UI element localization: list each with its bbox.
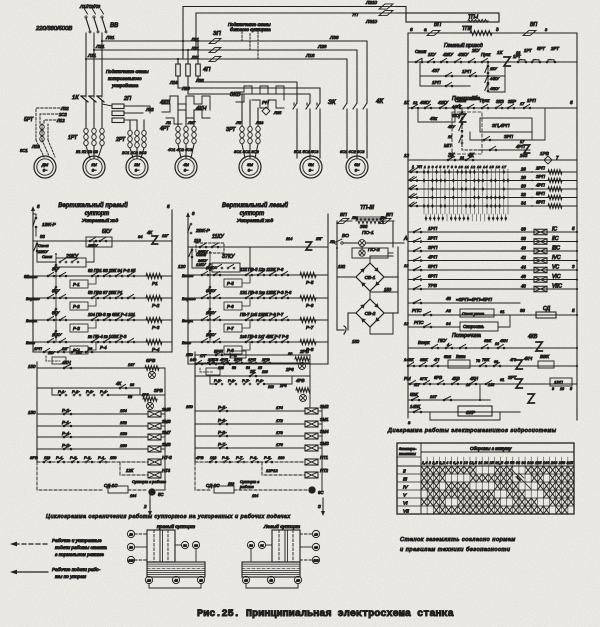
wire bridge rails bbox=[388, 252, 393, 254]
svg-text:116: 116 bbox=[262, 370, 268, 374]
svg-text:4ЗКУ: 4ЗКУ bbox=[458, 52, 469, 57]
svg-text:118: 118 bbox=[268, 385, 274, 389]
svg-text:6ВК: 6ВК bbox=[484, 338, 492, 343]
svg-text:1РТ: 1РТ bbox=[524, 48, 532, 53]
rung 4КН 6РВ bbox=[37, 367, 165, 369]
svg-text:Суппорт в работе: Суппорт в работе bbox=[132, 480, 166, 484]
wires fuses to ТП-I bbox=[396, 6, 406, 8]
svg-text:копировального: копировального bbox=[108, 76, 142, 81]
svg-text:VIС: VIС bbox=[552, 274, 561, 280]
svg-text:ЗМ8: ЗМ8 bbox=[162, 442, 171, 447]
svg-text:Ускоренный ход: Ускоренный ход bbox=[82, 217, 119, 224]
svg-text:174: 174 bbox=[276, 405, 283, 410]
svg-text:4З7: 4З7 bbox=[432, 68, 440, 73]
svg-text:суппорт: суппорт bbox=[240, 211, 264, 217]
svg-text:1РТ: 1РТ bbox=[68, 135, 78, 141]
left rail lower right column bbox=[407, 160, 409, 418]
svg-text:1З7: 1З7 bbox=[430, 395, 437, 399]
svg-text:2Р6: 2Р6 bbox=[285, 367, 294, 372]
svg-text:и правилам техники безопасно: и правилам техники безопасности bbox=[400, 547, 511, 553]
left support right rail bbox=[327, 214, 329, 364]
svg-text:СВ-2: СВ-2 bbox=[365, 311, 376, 316]
lamp ПО-1 wire to А bbox=[344, 242, 358, 244]
svg-text:Влево: Влево bbox=[182, 273, 194, 278]
rung ЗМ4 bbox=[195, 435, 305, 437]
svg-text:150: 150 bbox=[28, 410, 36, 415]
svg-text:1РП: 1РП bbox=[527, 98, 536, 103]
svg-text:ЗМ2: ЗМ2 bbox=[320, 404, 329, 409]
svg-text:З2: З2 bbox=[194, 543, 198, 547]
svg-text:3~: 3~ bbox=[248, 168, 253, 173]
svg-text:122 ПВ-5 12з 11ВК Р-6: 122 ПВ-5 12з 11ВК Р-6 bbox=[240, 267, 284, 272]
svg-text:СВ-1: СВ-1 bbox=[365, 275, 376, 280]
svg-text:Л31: Л31 bbox=[105, 35, 115, 40]
svg-text:К1 К2 К3 К3: К1 К2 К3 К3 bbox=[76, 149, 99, 154]
svg-text:2РП: 2РП bbox=[535, 166, 545, 171]
svg-text:IVС: IVС bbox=[552, 255, 561, 261]
rung ЗК 2РВ bbox=[195, 375, 310, 377]
svg-text:4КУ: 4КУ bbox=[470, 97, 477, 101]
svg-text:Вниз: Вниз bbox=[456, 354, 466, 359]
svg-text:ЗС1 ЗС2 ЗС3: ЗС1 ЗС2 ЗС3 bbox=[234, 149, 260, 154]
svg-text:4КВ: 4КВ bbox=[160, 100, 170, 106]
svg-text:ЗКЗ: ЗКЗ bbox=[496, 99, 504, 104]
svg-text:92 ПВ1 9З 2ВК 94 Р-2 95: 92 ПВ1 9З 2ВК 94 Р-2 95 bbox=[88, 268, 136, 273]
svg-text:ЗМ5: ЗМ5 bbox=[162, 407, 171, 412]
svg-text:1В: 1В bbox=[129, 532, 133, 536]
svg-text:12Г: 12Г bbox=[162, 234, 169, 238]
svg-text:III: III bbox=[403, 476, 408, 482]
svg-text:10В: 10В bbox=[128, 558, 133, 562]
svg-text:1З7: 1З7 bbox=[128, 363, 135, 367]
svg-text:2С1 2С2 2С3: 2С1 2С2 2С3 bbox=[121, 150, 147, 155]
svg-text:5ВК: 5ВК bbox=[410, 392, 418, 397]
transformer feed wire Л210 bbox=[183, 7, 382, 60]
motor 1М bbox=[83, 156, 105, 178]
svg-text:УП: УП bbox=[417, 165, 422, 169]
svg-text:Циклограмма ограничения ра: Циклограмма ограничения работы суппортов… bbox=[46, 514, 291, 520]
svg-text:З7КУ: З7КУ bbox=[222, 254, 235, 260]
rung electromagnet IIIС bbox=[408, 250, 577, 252]
left contact chain left support bbox=[191, 247, 193, 268]
svg-text:2РП: 2РП bbox=[427, 236, 438, 241]
contactor coil 1К bbox=[504, 57, 510, 66]
svg-text:ЗП: ЗП bbox=[213, 31, 222, 37]
svg-text:Р-5: Р-5 bbox=[306, 280, 314, 285]
svg-text:4В: 4В bbox=[269, 578, 273, 582]
rung Р1-Р4 series bbox=[52, 388, 60, 395]
aux contact box Р-7 left support bbox=[224, 324, 242, 332]
svg-text:Л32: Л32 bbox=[145, 107, 154, 112]
svg-text:ЗРП: ЗРП bbox=[536, 174, 546, 179]
svg-text:6: 6 bbox=[410, 27, 413, 32]
svg-text:2КУ: 2КУ bbox=[489, 67, 497, 71]
speed matrix rows bbox=[408, 171, 577, 173]
svg-text:119: 119 bbox=[194, 238, 201, 243]
svg-text:Р1: Р1 bbox=[152, 281, 158, 286]
svg-text:4К: 4К bbox=[147, 230, 152, 235]
svg-text:НТ1: НТ1 bbox=[320, 455, 328, 460]
svg-text:1М: 1М bbox=[91, 162, 97, 167]
svg-text:Р-2: Р-2 bbox=[152, 303, 160, 308]
rung: main drive start/stop bbox=[408, 61, 577, 63]
svg-text:9В: 9В bbox=[129, 545, 133, 549]
speed matrix crossing dots bbox=[423, 170, 426, 175]
rung right support Р-4 bbox=[33, 341, 172, 343]
svg-text:Р-7: Р-7 bbox=[227, 326, 234, 331]
svg-text:6С1 6С2 6С3: 6С1 6С2 6С3 bbox=[340, 149, 365, 154]
incoming supply terminals Л1 Л2 Л3 bbox=[85, 16, 87, 18]
svg-text:6РП: 6РП bbox=[536, 200, 545, 205]
rung: speed selector feed ЗК 4К bbox=[408, 159, 577, 161]
rectifier right rail bbox=[392, 221, 394, 247]
svg-text:1ВК-Р: 1ВК-Р bbox=[42, 222, 57, 228]
svg-text:120: 120 bbox=[178, 264, 186, 269]
left support left rail bbox=[187, 216, 189, 220]
svg-text:61: 61 bbox=[500, 378, 504, 382]
svg-text:164: 164 bbox=[130, 494, 136, 498]
svg-text:ЗМ6: ЗМ6 bbox=[162, 419, 171, 424]
svg-text:176: 176 bbox=[276, 442, 283, 447]
svg-text:в нормальном режиме: в нормальном режиме bbox=[55, 552, 104, 557]
svg-text:Рис.25. Принципиальная электро: Рис.25. Принципиальная электросхема стан… bbox=[197, 609, 454, 620]
svg-text:4РТ: 4РТ bbox=[160, 126, 170, 132]
svg-text:4КЧ: 4КЧ bbox=[524, 356, 533, 361]
rung crossrail up 4КВ bbox=[408, 347, 577, 349]
svg-text:25КУ: 25КУ bbox=[87, 243, 98, 248]
svg-text:подачи работы станка: подачи работы станка bbox=[55, 545, 107, 550]
svg-text:150: 150 bbox=[352, 339, 360, 344]
svg-text:Электро-: Электро- bbox=[399, 447, 417, 451]
svg-text:ЗГК: ЗГК bbox=[420, 376, 428, 381]
svg-text:14ВК: 14ВК bbox=[410, 404, 421, 409]
svg-text:4РВ: 4РВ bbox=[196, 455, 204, 460]
svg-text:Л210: Л210 bbox=[365, 0, 377, 5]
rung 14ВК ЗКР bbox=[408, 411, 520, 413]
svg-text:Р-6: Р-6 bbox=[306, 303, 314, 308]
svg-text:Суппорт в: Суппорт в bbox=[240, 480, 259, 484]
svg-text:Р-6: Р-6 bbox=[227, 304, 234, 309]
svg-text:64: 64 bbox=[446, 321, 451, 326]
svg-text:4В: 4В bbox=[174, 578, 178, 582]
svg-text:1К: 1К bbox=[404, 100, 409, 105]
rung СД-2С bbox=[195, 462, 212, 490]
svg-text:5РТ: 5РТ bbox=[537, 46, 545, 51]
rung: aux 437 1РП bbox=[420, 62, 505, 76]
svg-text:VС: VС bbox=[552, 265, 559, 271]
svg-text:Вниз: Вниз bbox=[182, 340, 191, 345]
svg-text:д: д bbox=[496, 27, 499, 32]
svg-text:IIIС: IIIС bbox=[552, 246, 560, 252]
svg-text:6С: 6С bbox=[318, 490, 324, 495]
svg-text:1з6 ПВ-8 1з7 4ВК Р-7 Р-8: 1з6 ПВ-8 1з7 4ВК Р-7 Р-8 bbox=[240, 334, 289, 339]
lower right ladder left rail bbox=[36, 362, 38, 462]
aux contact box Р-6 left support bbox=[224, 302, 242, 310]
rung accelerated travel 11КУ bbox=[188, 246, 328, 248]
svg-text:ЗК: ЗК bbox=[328, 99, 336, 106]
svg-text:Рабочие подачи рабо-: Рабочие подачи рабо- bbox=[52, 567, 101, 572]
svg-text:Л1: Л1 bbox=[165, 120, 171, 125]
svg-text:Вертикальный правый: Вертикальный правый bbox=[58, 202, 128, 209]
right support left rail bbox=[32, 210, 34, 214]
svg-text:11: 11 bbox=[448, 135, 452, 139]
svg-text:154: 154 bbox=[120, 408, 127, 413]
svg-text:45КУ: 45КУ bbox=[490, 87, 499, 91]
svg-text:26: 26 bbox=[520, 167, 526, 172]
rung: 1РП coil branch bbox=[420, 76, 470, 86]
svg-text:1РП: 1РП bbox=[554, 380, 563, 385]
motor 2М bbox=[126, 156, 148, 178]
svg-text:1РП: 1РП bbox=[428, 226, 438, 231]
rung electromagnet VС bbox=[408, 269, 577, 271]
svg-text:Ускоренный ход: Ускоренный ход bbox=[237, 217, 274, 224]
svg-text:5ВБ: 5ВБ bbox=[444, 355, 452, 359]
svg-text:Л32: Л32 bbox=[60, 106, 69, 111]
fuse 7П upper bbox=[379, 4, 393, 9]
side support tap wires (dashed) bbox=[241, 32, 243, 41]
svg-text:1 2 3 4 5 6 7 8 9 10 11 12 13: 1 2 3 4 5 6 7 8 9 10 11 12 13 14 15 16 1… bbox=[424, 165, 506, 169]
svg-text:16: 16 bbox=[560, 387, 564, 391]
svg-text:4РП: 4РП bbox=[428, 255, 438, 260]
rung electromagnet IVС bbox=[408, 260, 577, 262]
rung right support Р-3 bbox=[33, 319, 172, 321]
svg-text:38: 38 bbox=[521, 236, 526, 241]
svg-text:4КВ: 4КВ bbox=[452, 376, 460, 381]
wires 4П to ЗК contactor bbox=[178, 88, 320, 101]
svg-text:А: А bbox=[403, 236, 408, 242]
svg-text:4КВ: 4КВ bbox=[528, 334, 538, 340]
svg-text:16: 16 bbox=[495, 342, 499, 346]
rung crossrail down 4КН bbox=[408, 365, 577, 367]
aux box 43К bbox=[418, 108, 455, 122]
diagonal note in table bbox=[511, 469, 531, 489]
rung 5ВК 137 bbox=[408, 399, 490, 401]
svg-text:БП: БП bbox=[340, 212, 347, 218]
svg-text:4КН: 4КН bbox=[500, 338, 508, 343]
rung 5РП bbox=[195, 354, 310, 356]
svg-text:Р-4: Р-4 bbox=[152, 347, 160, 352]
svg-text:48: 48 bbox=[446, 296, 451, 301]
svg-text:114: 114 bbox=[286, 236, 293, 241]
svg-text:2М: 2М bbox=[133, 162, 140, 167]
wires to motor 1М bbox=[86, 146, 90, 158]
svg-text:магниты: магниты bbox=[399, 452, 416, 456]
relay box 1РП right bbox=[550, 378, 572, 386]
rectifier left rail bbox=[336, 221, 338, 330]
svg-text:Влево: Влево bbox=[26, 274, 38, 279]
rectifier output wire bbox=[337, 329, 344, 331]
svg-text:Л16: Л16 bbox=[169, 80, 178, 85]
svg-text:24З: 24З bbox=[519, 153, 528, 158]
rung ЗРП bbox=[470, 132, 532, 140]
svg-text:РМ: РМ bbox=[404, 376, 411, 381]
svg-text:7РВ: 7РВ bbox=[428, 283, 437, 288]
bottom rung left support bbox=[188, 363, 328, 365]
svg-text:150: 150 bbox=[28, 364, 36, 369]
svg-text:А2: А2 bbox=[445, 308, 452, 313]
control rail top bbox=[408, 32, 577, 34]
rung ЗМ5 bbox=[37, 413, 148, 415]
svg-text:5: 5 bbox=[570, 100, 573, 105]
svg-text:ЗКВ: ЗКВ bbox=[230, 92, 241, 98]
svg-text:ВО: ВО bbox=[342, 233, 349, 239]
rung Р-5..Р-8 series 4РВ bbox=[210, 376, 216, 384]
relay box ЗП 4РП bbox=[480, 118, 532, 132]
svg-text:12К: 12К bbox=[126, 468, 134, 473]
svg-text:Р-6: Р-6 bbox=[218, 418, 225, 423]
svg-text:РПС: РПС bbox=[412, 308, 422, 313]
svg-text:МП: МП bbox=[444, 143, 452, 148]
aux contact box Р-З right support bbox=[70, 324, 88, 332]
rung РПС Стоп coil СД bbox=[408, 314, 577, 316]
svg-text:5С: 5С bbox=[158, 492, 164, 497]
svg-text:Стоп: Стоп bbox=[415, 49, 427, 54]
svg-text:11КУ: 11КУ bbox=[212, 234, 224, 240]
svg-text:2В: 2В bbox=[295, 578, 300, 582]
svg-text:46КУ: 46КУ bbox=[420, 100, 431, 105]
svg-text:ЗМ7: ЗМ7 bbox=[162, 430, 171, 435]
svg-text:84: 84 bbox=[138, 234, 143, 239]
svg-text:Л310: Л310 bbox=[365, 19, 377, 24]
aux contact box Р-8 left support bbox=[224, 346, 242, 354]
rung left support Р-8 bbox=[188, 341, 328, 343]
svg-text:ЗМ: ЗМ bbox=[247, 162, 253, 167]
svg-text:устройства: устройства bbox=[111, 82, 139, 88]
svg-text:НТ4: НТ4 bbox=[162, 468, 171, 473]
left rail control section bbox=[407, 33, 409, 160]
svg-text:3~: 3~ bbox=[309, 168, 314, 173]
svg-text:Пуск: Пуск bbox=[481, 52, 491, 57]
svg-text:104 ПВ-З кв 9ВК Р-4 101: 104 ПВ-З кв 9ВК Р-4 101 bbox=[88, 312, 135, 317]
transformer feed wire Л310 bbox=[196, 13, 382, 50]
svg-text:1,6 2 2,5 3,2 4 5 6,3 8 10 12,: 1,6 2 2,5 3,2 4 5 6,3 8 10 12,5 16 20 25… bbox=[422, 461, 573, 465]
dashed rung НТ2 bbox=[262, 462, 305, 475]
svg-text:40: 40 bbox=[521, 246, 526, 251]
svg-text:ЗРП: ЗРП bbox=[428, 245, 438, 250]
svg-text:Стоп: Стоп bbox=[42, 255, 53, 259]
rung 4К 86 bbox=[37, 387, 140, 389]
svg-text:61: 61 bbox=[500, 309, 504, 314]
svg-text:Левый суппорт: Левый суппорт bbox=[263, 523, 300, 530]
motor ДМ bbox=[34, 156, 56, 178]
signal lamp 6С bbox=[309, 487, 315, 493]
rectifier bridge СВ-2 bbox=[356, 299, 384, 327]
svg-text:4КУ: 4КУ bbox=[448, 125, 455, 129]
svg-text:2: 2 bbox=[143, 504, 147, 509]
svg-text:3~: 3~ bbox=[135, 168, 140, 173]
svg-text:З2: З2 bbox=[249, 543, 253, 547]
svg-text:Р-3: Р-3 bbox=[152, 325, 160, 330]
svg-text:66: 66 bbox=[520, 308, 525, 313]
arrow down right ladder bbox=[149, 500, 151, 512]
svg-text:З: З bbox=[318, 504, 321, 509]
svg-text:VII: VII bbox=[403, 508, 410, 514]
svg-text:44КУ: 44КУ bbox=[490, 77, 499, 81]
svg-text:Рабочие и ускоренные: Рабочие и ускоренные bbox=[52, 538, 102, 543]
wires to motor ДМ (dashed) bbox=[36, 140, 44, 157]
svg-text:ЗМЗ: ЗМЗ bbox=[320, 441, 329, 446]
svg-text:Диаграмма работы электромагнит: Диаграмма работы электромагнитов гидроси… bbox=[387, 428, 557, 434]
bus wires ЗП to 4К contactor bbox=[224, 41, 367, 100]
svg-text:Вверх: Вверх bbox=[26, 318, 38, 323]
table column separators header bbox=[426, 457, 428, 466]
svg-text:172: 172 bbox=[276, 418, 283, 423]
svg-text:ПВ-7 1з5 1ЗВК Р-8 Р-7: ПВ-7 1з5 1ЗВК Р-8 Р-7 bbox=[240, 312, 284, 317]
bottom rung right support bbox=[33, 351, 172, 353]
svg-text:Стоп: Стоп bbox=[196, 253, 207, 257]
svg-text:3~: 3~ bbox=[43, 168, 48, 173]
svg-text:Л25: Л25 bbox=[273, 110, 282, 115]
svg-text:5РП: 5РП bbox=[428, 264, 438, 269]
rung РМ 6РВ 4КВ 4КН ЗРТ bbox=[408, 383, 577, 385]
rung: faceplate control bbox=[408, 107, 577, 109]
svg-text:Стоп: Стоп bbox=[455, 98, 467, 103]
svg-text:Стоп: Стоп bbox=[38, 243, 49, 248]
rung ЗМ7 bbox=[37, 436, 148, 438]
svg-text:150: 150 bbox=[384, 287, 392, 292]
svg-text:СД-2С: СД-2С bbox=[206, 483, 220, 488]
svg-text:Р-4: Р-4 bbox=[100, 345, 107, 350]
rung electromagnet IIС bbox=[408, 241, 577, 243]
svg-text:220/380/500В: 220/380/500В bbox=[35, 26, 72, 32]
table row V bbox=[397, 497, 574, 499]
svg-text:6РП: 6РП bbox=[428, 274, 438, 279]
svg-text:Вертикальный левый: Вертикальный левый bbox=[222, 202, 288, 209]
svg-text:IV: IV bbox=[403, 484, 408, 490]
rung СД-1С suppurt v rabote bbox=[37, 462, 104, 490]
svg-text:28: 28 bbox=[520, 175, 526, 180]
rung ЗРП 4РП 5РП interlock bbox=[408, 302, 520, 304]
rung right support Р-2 bbox=[33, 297, 172, 299]
rung ЗП 4РП ЗРП 1РП 2РВ bbox=[195, 362, 310, 364]
svg-text:ЗРТ: ЗРТ bbox=[226, 127, 236, 133]
svg-text:Вниз: Вниз bbox=[26, 340, 35, 345]
svg-text:1РВ: 1РВ bbox=[540, 151, 549, 156]
svg-text:3~: 3~ bbox=[92, 168, 97, 173]
svg-text:10В: 10В bbox=[313, 558, 318, 562]
svg-text:ВП: ВП bbox=[530, 22, 537, 28]
svg-text:ТП-III: ТП-III bbox=[360, 205, 374, 211]
svg-text:46: 46 bbox=[521, 274, 526, 279]
svg-text:4РП: 4РП bbox=[536, 183, 545, 188]
svg-text:Л33: Л33 bbox=[255, 120, 264, 125]
svg-text:Вправо: Вправо bbox=[182, 296, 196, 301]
svg-text:4К: 4К bbox=[376, 98, 383, 105]
svg-text:5: 5 bbox=[570, 387, 572, 391]
svg-text:42КУ: 42КУ bbox=[443, 52, 454, 57]
lower left ladder left rail bbox=[194, 352, 196, 462]
svg-text:З68: З68 bbox=[360, 224, 368, 229]
svg-text:3~: 3~ bbox=[184, 168, 189, 173]
svg-text:VIIС: VIIС bbox=[552, 284, 562, 290]
svg-text:З1: З1 bbox=[183, 543, 187, 547]
table row III bbox=[397, 481, 574, 483]
svg-text:НТ2: НТ2 bbox=[320, 468, 329, 473]
svg-text:9: 9 bbox=[552, 387, 554, 391]
svg-text:178: 178 bbox=[276, 430, 283, 435]
svg-text:6В: 6В bbox=[199, 578, 203, 582]
svg-text:З1: З1 bbox=[260, 543, 264, 547]
svg-text:Р-5: Р-5 bbox=[227, 281, 234, 286]
svg-text:152: 152 bbox=[120, 420, 127, 425]
dashed rung НТ-3 bbox=[37, 461, 148, 463]
svg-text:IС: IС bbox=[552, 227, 557, 233]
svg-text:ЗМ4: ЗМ4 bbox=[320, 429, 329, 434]
svg-text:150: 150 bbox=[110, 456, 117, 460]
table electromagnet modes bbox=[397, 443, 574, 514]
svg-text:1РП: 1РП bbox=[34, 346, 42, 351]
timer 2РВ bbox=[299, 363, 306, 370]
